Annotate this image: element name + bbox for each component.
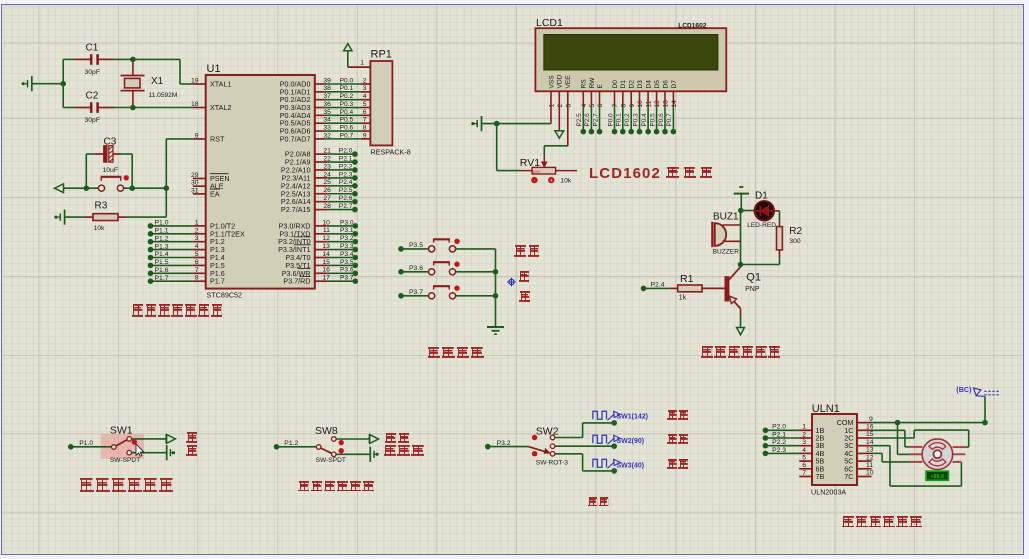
stepper motor M1 xyxy=(910,439,966,470)
svg-text:P0.0: P0.0 xyxy=(607,113,614,127)
caption none xyxy=(186,432,198,443)
svg-text:6: 6 xyxy=(195,259,199,266)
svg-text:3: 3 xyxy=(565,104,572,108)
RP1 pin1 wire and VCC arrow xyxy=(344,44,371,68)
power terminal (battery) SW1 xyxy=(167,445,175,460)
node P2.4 xyxy=(641,282,665,292)
P0 bus wires to RP1 xyxy=(315,77,371,139)
wire xyxy=(401,248,428,250)
resistor R2 xyxy=(777,226,803,264)
svg-text:10k: 10k xyxy=(560,178,572,185)
ground buttons xyxy=(487,327,504,334)
svg-text:1: 1 xyxy=(195,219,199,226)
svg-text:P1.7: P1.7 xyxy=(155,275,169,282)
svg-text:7C: 7C xyxy=(844,472,853,481)
power terminal (battery) top-left xyxy=(22,76,32,91)
svg-text:P2.7/A15: P2.7/A15 xyxy=(281,205,311,214)
caption high speed xyxy=(667,410,689,420)
node gen3 xyxy=(611,468,617,474)
wire xyxy=(124,187,167,189)
wire VEE to wiper xyxy=(544,146,568,156)
svg-text:R3: R3 xyxy=(95,201,108,212)
driver ULN1 body xyxy=(811,403,857,497)
button actuator dot xyxy=(454,239,459,244)
svg-text:12: 12 xyxy=(322,235,330,242)
led D1 xyxy=(747,190,776,229)
svg-text:P3.2: P3.2 xyxy=(340,235,354,242)
svg-text:P0.1: P0.1 xyxy=(340,85,354,92)
svg-text:P0.6: P0.6 xyxy=(658,113,665,127)
node junction X1 bottom xyxy=(130,105,136,111)
P2 port wires and nodes xyxy=(315,148,358,213)
wire xyxy=(401,271,428,273)
wire bus xyxy=(495,249,497,327)
caption color detect module xyxy=(298,481,375,492)
svg-text:VDD: VDD xyxy=(557,74,564,88)
svg-text:18: 18 xyxy=(191,101,199,108)
svg-text:SW-ROT-3: SW-ROT-3 xyxy=(536,460,568,467)
svg-text:32: 32 xyxy=(323,132,331,139)
svg-text:P0.6: P0.6 xyxy=(340,124,354,131)
svg-text:P0.7: P0.7 xyxy=(340,132,354,139)
svg-text:5: 5 xyxy=(363,101,367,108)
wire xyxy=(131,438,165,440)
LCD pin 2 wire (VDD) xyxy=(555,91,564,138)
switch SW1 (SW-SPDT) xyxy=(110,425,140,464)
svg-text:12: 12 xyxy=(866,454,874,461)
svg-text:P2.3: P2.3 xyxy=(772,447,786,454)
power terminal (battery) R3 left xyxy=(54,210,64,225)
svg-text:21: 21 xyxy=(323,148,331,155)
terminal (BC) xyxy=(956,385,999,397)
node junction RST xyxy=(164,185,170,191)
svg-text:2: 2 xyxy=(557,104,564,108)
svg-text:2: 2 xyxy=(195,227,199,234)
svg-text:P2.2: P2.2 xyxy=(772,439,786,446)
svg-text:P3.3: P3.3 xyxy=(340,243,354,250)
svg-text:D4: D4 xyxy=(646,80,653,89)
wire xyxy=(456,271,496,273)
LCD pin names xyxy=(548,74,677,88)
svg-text:35: 35 xyxy=(323,109,331,116)
svg-text:15: 15 xyxy=(322,259,330,266)
svg-text:P2.1: P2.1 xyxy=(772,431,786,438)
wire 2C to motor xyxy=(872,430,969,447)
svg-text:1: 1 xyxy=(549,104,556,108)
svg-text:23: 23 xyxy=(323,163,331,170)
svg-text:3: 3 xyxy=(195,235,199,242)
svg-text:11.0592M: 11.0592M xyxy=(149,92,178,99)
wire xyxy=(774,211,780,227)
svg-text:16: 16 xyxy=(866,424,874,431)
switch SW8 (SW-SPDT) xyxy=(315,425,346,464)
svg-text:COM: COM xyxy=(837,418,854,427)
svg-text:P1.1: P1.1 xyxy=(155,228,169,235)
svg-text:P1.4: P1.4 xyxy=(155,251,169,258)
svg-text:38: 38 xyxy=(323,85,331,92)
svg-text:8: 8 xyxy=(363,124,367,131)
svg-text:LED-RED: LED-RED xyxy=(747,222,776,229)
svg-text:SW2: SW2 xyxy=(536,425,559,437)
svg-text:BUZZER: BUZZER xyxy=(713,248,740,255)
svg-text:U1: U1 xyxy=(207,63,221,75)
svg-text:C3: C3 xyxy=(104,137,117,148)
node P3.5 xyxy=(398,242,423,252)
svg-text:8: 8 xyxy=(620,104,627,108)
capacitor C2 xyxy=(75,91,114,124)
switch SW2 (SW-ROT-3) xyxy=(528,425,568,466)
svg-text:BUZ1: BUZ1 xyxy=(713,211,739,222)
svg-text:P2.6: P2.6 xyxy=(339,195,353,202)
svg-text:P3.4: P3.4 xyxy=(340,251,354,258)
svg-text:RST: RST xyxy=(210,134,225,143)
pulse generator SW2(90) xyxy=(593,435,644,445)
wire xyxy=(497,124,520,171)
svg-text:2: 2 xyxy=(363,77,367,84)
svg-text:4: 4 xyxy=(581,104,588,108)
svg-text:VSS: VSS xyxy=(548,75,555,89)
svg-text:4: 4 xyxy=(363,93,367,100)
node P3.2 xyxy=(485,440,511,449)
driver ULN1 pins xyxy=(799,416,874,481)
svg-text:14: 14 xyxy=(322,251,330,258)
svg-text:X1: X1 xyxy=(151,76,164,87)
wire xyxy=(86,154,95,188)
svg-text:P3.7: P3.7 xyxy=(340,275,354,282)
svg-text:ULN1: ULN1 xyxy=(812,403,840,415)
svg-text:7: 7 xyxy=(195,267,199,274)
svg-text:13: 13 xyxy=(322,243,330,250)
wire xyxy=(121,154,133,188)
wire xyxy=(741,211,780,265)
caption sound-light alarm circuit xyxy=(701,346,782,359)
svg-text:P3.7: P3.7 xyxy=(409,289,423,296)
wire xyxy=(71,446,112,448)
svg-text:5: 5 xyxy=(802,455,806,462)
svg-text:ULN2003A: ULN2003A xyxy=(811,488,846,497)
svg-text:8: 8 xyxy=(195,275,199,282)
svg-text:29: 29 xyxy=(191,172,199,179)
ground alarm top xyxy=(734,187,749,211)
svg-text:EA: EA xyxy=(210,189,220,198)
svg-text:RW: RW xyxy=(589,77,596,89)
svg-text:9: 9 xyxy=(195,132,199,139)
button actuator dot xyxy=(454,262,459,267)
svg-text:P2.2: P2.2 xyxy=(339,163,353,170)
push button P3.6 xyxy=(429,262,456,275)
svg-text:13: 13 xyxy=(866,447,874,454)
crystal X1 xyxy=(121,59,178,107)
svg-text:33: 33 xyxy=(323,124,331,131)
terminal arrow SW1 xyxy=(166,435,175,444)
svg-text:SW1: SW1 xyxy=(110,425,133,437)
svg-text:7B: 7B xyxy=(816,472,825,481)
svg-text:P0.2: P0.2 xyxy=(624,113,631,127)
svg-text:7: 7 xyxy=(612,104,619,108)
P3 port wires and nodes xyxy=(315,219,358,284)
node P1.2 xyxy=(274,440,299,449)
svg-text:30pF: 30pF xyxy=(85,69,101,76)
resistor R1 xyxy=(670,273,725,302)
svg-text:SW2(90): SW2(90) xyxy=(617,438,645,445)
SW2 actuator dots xyxy=(532,435,537,457)
svg-text:P1.5: P1.5 xyxy=(155,259,169,266)
svg-text:9: 9 xyxy=(363,132,367,139)
svg-text:P2.6: P2.6 xyxy=(584,113,591,127)
svg-text:10uF: 10uF xyxy=(103,167,119,174)
svg-text:30pF: 30pF xyxy=(85,117,101,124)
svg-text:P0.5: P0.5 xyxy=(340,117,354,124)
svg-text:10: 10 xyxy=(322,219,330,226)
wire xyxy=(456,248,496,250)
svg-text:SW3(40): SW3(40) xyxy=(617,463,645,470)
svg-text:D6: D6 xyxy=(662,80,669,89)
potentiometer RV1 xyxy=(520,156,577,185)
node P3.6 xyxy=(398,265,423,275)
wire COM to motor xyxy=(898,423,910,455)
caption flow speed xyxy=(588,497,610,507)
svg-text:D3: D3 xyxy=(637,80,644,89)
caption set xyxy=(514,245,541,256)
svg-text:17: 17 xyxy=(322,275,330,282)
svg-text:P1.2: P1.2 xyxy=(155,235,169,242)
wire xyxy=(488,446,528,448)
svg-text:P2.0: P2.0 xyxy=(772,424,786,431)
svg-text:P2.3: P2.3 xyxy=(339,171,353,178)
LCD pin numbers xyxy=(549,100,678,108)
svg-text:D0: D0 xyxy=(612,80,619,89)
wire 3C to motor xyxy=(872,446,962,486)
caption not-trigger xyxy=(384,445,426,456)
svg-text:RV1: RV1 xyxy=(520,157,540,169)
node gen1 xyxy=(611,420,617,426)
wire xyxy=(126,216,166,218)
svg-text:P3.5: P3.5 xyxy=(340,259,354,266)
power terminal (battery) SW8 xyxy=(370,447,378,462)
svg-text:RP1: RP1 xyxy=(371,49,392,61)
svg-text:31: 31 xyxy=(191,187,199,194)
svg-text:6: 6 xyxy=(802,462,806,469)
svg-text:SW1(142): SW1(142) xyxy=(617,413,649,420)
LCD data/control wires with net labels xyxy=(576,91,676,134)
wire xyxy=(984,396,986,422)
svg-text:PNP: PNP xyxy=(745,286,760,293)
terminal arrow emitter xyxy=(737,328,745,335)
svg-text:P0.7: P0.7 xyxy=(666,113,673,127)
svg-text:D1: D1 xyxy=(620,80,627,89)
wire xyxy=(482,123,551,125)
wire COM xyxy=(872,422,986,424)
push button P3.5 xyxy=(429,239,456,252)
svg-text:+88.8: +88.8 xyxy=(930,474,944,480)
LCD pin 1 wire (VSS) xyxy=(550,91,552,123)
svg-text:D1: D1 xyxy=(755,190,768,201)
svg-text:R2: R2 xyxy=(789,226,802,237)
svg-text:26: 26 xyxy=(323,187,331,194)
svg-text:P2.7: P2.7 xyxy=(592,113,599,127)
svg-text:36: 36 xyxy=(323,101,331,108)
svg-text:D7: D7 xyxy=(671,80,678,89)
wire xyxy=(63,59,75,107)
motor speed display xyxy=(926,471,948,480)
wire xyxy=(114,58,180,60)
node junction C3 right xyxy=(129,185,135,191)
svg-text:27: 27 xyxy=(323,195,331,202)
power terminal (battery) LCD VSS xyxy=(471,116,481,131)
svg-text:7: 7 xyxy=(802,470,806,477)
svg-text:P0.1: P0.1 xyxy=(616,113,623,127)
caption minus xyxy=(519,291,531,302)
svg-text:14: 14 xyxy=(866,439,874,446)
svg-text:16: 16 xyxy=(322,267,330,274)
wire xyxy=(336,453,370,455)
svg-text:P3.0: P3.0 xyxy=(340,219,354,226)
svg-text:P1.3: P1.3 xyxy=(155,243,169,250)
svg-text:7: 7 xyxy=(363,117,367,124)
svg-text:300: 300 xyxy=(789,238,801,245)
svg-text:D5: D5 xyxy=(654,80,661,89)
capacitor C3 xyxy=(96,137,121,175)
caption LCD1602 title xyxy=(589,165,661,182)
svg-text:1: 1 xyxy=(360,60,364,67)
svg-text:3: 3 xyxy=(802,439,806,446)
selection highlight SW1 xyxy=(101,434,144,459)
svg-text:SW8: SW8 xyxy=(315,425,338,437)
svg-text:1: 1 xyxy=(802,424,806,431)
svg-text:10: 10 xyxy=(866,470,874,477)
svg-text:P2.7: P2.7 xyxy=(339,203,353,210)
wire xyxy=(64,187,99,189)
wire xyxy=(180,59,193,84)
resistor pack RP1 xyxy=(370,49,410,157)
svg-text:19: 19 xyxy=(191,78,199,85)
mouse cursor xyxy=(136,444,144,456)
svg-text:1k: 1k xyxy=(679,295,687,302)
svg-text:24: 24 xyxy=(323,171,331,178)
wire xyxy=(401,295,428,297)
svg-text:P2.1: P2.1 xyxy=(339,155,353,162)
svg-text:39: 39 xyxy=(323,77,331,84)
terminal arrow SW8 xyxy=(369,435,378,444)
svg-text:P1.6: P1.6 xyxy=(155,267,169,274)
node P3.7 xyxy=(398,289,423,299)
svg-text:RS: RS xyxy=(581,79,588,89)
button actuator dot xyxy=(124,175,129,180)
svg-text:5: 5 xyxy=(195,251,199,258)
buzzer BUZ1 xyxy=(712,211,740,255)
LCD pin 3 wire (VEE) xyxy=(567,91,569,146)
svg-text:10: 10 xyxy=(637,100,644,108)
push button reset xyxy=(98,177,123,191)
caption plus xyxy=(519,271,531,282)
svg-text:D2: D2 xyxy=(629,80,636,89)
SW8 actuator dots xyxy=(339,440,344,454)
svg-text:34: 34 xyxy=(323,117,331,124)
caption trigger xyxy=(385,433,411,444)
svg-text:P0.3: P0.3 xyxy=(340,101,354,108)
svg-text:C1: C1 xyxy=(86,43,99,54)
svg-text:11: 11 xyxy=(646,100,653,107)
svg-text:R1: R1 xyxy=(680,273,694,285)
svg-text:P0.7/AD7: P0.7/AD7 xyxy=(280,134,311,143)
wire xyxy=(277,446,317,448)
node junction X1 top xyxy=(130,57,136,63)
svg-text:P0.4: P0.4 xyxy=(340,109,354,116)
svg-text:P3.6: P3.6 xyxy=(409,265,423,272)
svg-text:RESPACK-8: RESPACK-8 xyxy=(371,148,411,157)
wire xyxy=(741,210,755,212)
LCD1 module body xyxy=(535,17,726,91)
mcu U1 body xyxy=(206,63,315,300)
svg-text:LCD1: LCD1 xyxy=(536,17,563,29)
wire xyxy=(644,287,670,289)
svg-text:P2.4: P2.4 xyxy=(651,282,665,289)
svg-text:9: 9 xyxy=(869,416,873,423)
node junction left of C1/C2 xyxy=(60,81,66,87)
svg-text:22: 22 xyxy=(323,155,331,162)
wire RST net xyxy=(166,139,193,217)
transistor Q1 xyxy=(725,267,761,309)
node junction button left xyxy=(84,185,90,191)
svg-text:P0.2: P0.2 xyxy=(340,93,354,100)
node P1.0 xyxy=(68,440,93,449)
svg-text:E: E xyxy=(597,84,604,89)
caption have xyxy=(186,445,198,456)
svg-text:P2.4: P2.4 xyxy=(339,179,353,186)
P2 nets to ULN xyxy=(763,424,800,457)
terminal arrow left xyxy=(55,184,64,193)
caption independent buttons xyxy=(427,347,485,359)
svg-text:4: 4 xyxy=(802,447,806,454)
mcu U1 pin labels xyxy=(210,80,311,286)
node junction COM xyxy=(895,420,901,426)
svg-text:11: 11 xyxy=(866,462,873,469)
svg-text:11: 11 xyxy=(323,227,330,234)
svg-text:15: 15 xyxy=(866,431,874,438)
pulse generator SW1(142) xyxy=(593,411,648,420)
svg-text:P3.1: P3.1 xyxy=(340,227,354,234)
svg-text:30: 30 xyxy=(191,180,199,187)
pulse generator SW3(40) xyxy=(593,459,644,469)
svg-text:25: 25 xyxy=(323,179,331,186)
svg-text:P1.7: P1.7 xyxy=(210,277,225,286)
svg-text:P0.5: P0.5 xyxy=(649,113,656,127)
caption liquid detect module xyxy=(79,478,175,492)
svg-text:12: 12 xyxy=(654,100,661,108)
node gen2 xyxy=(611,443,617,449)
svg-text:50%: 50% xyxy=(532,169,540,174)
wire xyxy=(336,438,369,440)
origin marker xyxy=(507,278,516,287)
svg-text:+: + xyxy=(550,178,553,184)
svg-text:P0.0: P0.0 xyxy=(340,77,354,84)
RV1 actuator dots xyxy=(531,177,554,184)
wire xyxy=(114,107,193,109)
wire 1C to motor xyxy=(872,430,910,447)
wire 4C to motor xyxy=(872,453,910,462)
wire xyxy=(456,295,496,297)
capacitor C1 xyxy=(75,43,114,76)
svg-text:9: 9 xyxy=(629,104,636,108)
svg-text:37: 37 xyxy=(323,93,331,100)
svg-text:P3.6: P3.6 xyxy=(340,267,354,274)
svg-text:(BC): (BC) xyxy=(956,385,972,394)
SW1 actuator dot xyxy=(132,439,137,444)
svg-text:6: 6 xyxy=(597,104,604,108)
node junction xyxy=(493,269,499,275)
caption four phase stepper motor xyxy=(842,516,923,528)
node junction D1 xyxy=(738,208,744,214)
